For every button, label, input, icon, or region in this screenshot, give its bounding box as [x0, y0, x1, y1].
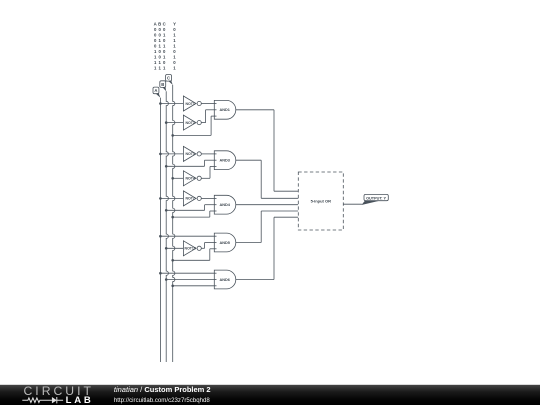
svg-text:NOT2: NOT2	[186, 121, 195, 125]
svg-text:Y: Y	[173, 21, 176, 26]
svg-text:C: C	[163, 21, 166, 26]
svg-text:AND6: AND6	[220, 278, 230, 282]
svg-text:5-input OR: 5-input OR	[311, 198, 332, 203]
svg-text:NOT3: NOT3	[186, 152, 195, 156]
svg-text:A: A	[154, 88, 157, 93]
svg-text:NOT1: NOT1	[186, 102, 195, 106]
svg-text:B: B	[158, 21, 161, 26]
svg-text:NOT10: NOT10	[185, 247, 196, 251]
svg-text:AND1: AND1	[220, 108, 230, 112]
svg-text:LAB: LAB	[66, 395, 94, 405]
svg-text:NOT7: NOT7	[186, 197, 195, 201]
svg-text:C: C	[167, 76, 170, 81]
svg-text:AND3: AND3	[220, 159, 230, 163]
svg-text:B: B	[161, 82, 164, 87]
svg-text:OUTPUT: Y: OUTPUT: Y	[366, 196, 386, 200]
svg-text:NOT4: NOT4	[186, 177, 195, 181]
svg-text:AND4: AND4	[220, 203, 231, 207]
svg-text:http://circuitlab.com/c23z7r5c: http://circuitlab.com/c23z7r5cbqhd8	[114, 397, 210, 404]
svg-text:A: A	[154, 21, 157, 26]
svg-text:tinatian / Custom Problem 2: tinatian / Custom Problem 2	[114, 385, 211, 394]
svg-text:AND5: AND5	[220, 241, 230, 245]
